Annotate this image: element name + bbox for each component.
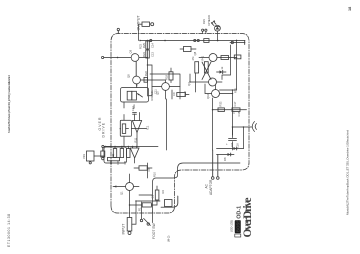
diode D5 — [220, 70, 223, 73]
electrolytic cap — [232, 127, 234, 150]
svg-text:C9: C9 — [172, 92, 176, 96]
svg-text:R29: R29 — [202, 19, 206, 24]
svg-text:Q7: Q7 — [187, 82, 191, 86]
svg-text:Q9: Q9 — [129, 49, 133, 53]
svg-text:INPUT: INPUT — [121, 223, 125, 235]
svg-text:R23: R23 — [139, 44, 143, 49]
right bus — [140, 40, 245, 42]
svg-text:C14: C14 — [151, 43, 155, 48]
Q5 switch — [162, 83, 170, 91]
pot B DRIVE — [120, 120, 131, 136]
svg-text:ET130001 14:38: ET130001 14:38 — [7, 214, 11, 247]
svg-text:R10: R10 — [152, 172, 156, 177]
flip-flop — [209, 78, 217, 86]
pin circle P7 — [117, 28, 119, 30]
svg-text:C12: C12 — [131, 106, 135, 111]
svg-text:R18: R18 — [165, 75, 169, 80]
svg-text:Q1: Q1 — [120, 191, 124, 195]
svg-text:C17: C17 — [233, 101, 237, 106]
pot A pin — [101, 151, 105, 157]
pot A — [104, 147, 127, 163]
diodes — [217, 149, 244, 155]
resistor R16 — [177, 93, 186, 97]
op-amp U1b — [130, 148, 139, 158]
svg-text:VR1: VR1 — [82, 153, 86, 159]
Q1 output — [131, 54, 139, 62]
Q1 input — [126, 183, 134, 191]
wire ff-to-power — [222, 45, 231, 80]
svg-text:Q8: Q8 — [127, 74, 131, 78]
svg-text:D9: D9 — [231, 110, 235, 114]
coupling cap C12 — [133, 112, 137, 114]
junction dots bus — [105, 146, 107, 148]
battery clip — [252, 122, 256, 132]
inner corner wire — [161, 196, 178, 207]
svg-text:MusicML2TheTubeAmpBook OD1_ET: MusicML2TheTubeAmpBook OD1_ET 330_Overdr… — [346, 130, 350, 215]
resistor R42 — [221, 56, 229, 60]
svg-text:BOSS: BOSS — [236, 220, 241, 233]
rails — [166, 99, 168, 150]
notch wire — [153, 163, 241, 212]
resistor R18 — [169, 72, 173, 80]
bus — [104, 146, 158, 148]
svg-text:C6: C6 — [147, 168, 151, 172]
resistor column — [113, 149, 116, 158]
svg-text:(OD-135): (OD-135) — [230, 220, 234, 232]
input resistors — [142, 203, 151, 207]
svg-text:MusicML2TheTubeAmpBook OD1_ET: MusicML2TheTubeAmpBook OD1_ET 330_Overdr… — [7, 75, 11, 133]
svg-text:R2: R2 — [161, 190, 165, 194]
op-amp U1a — [132, 121, 141, 133]
svg-text:R33: R33 — [219, 101, 223, 106]
svg-text:Q5: Q5 — [156, 91, 160, 95]
svg-text:C16: C16 — [237, 111, 241, 116]
Q LED driver — [212, 90, 220, 98]
trimmer box — [87, 151, 95, 161]
svg-text:(M-2): (M-2) — [167, 235, 171, 242]
pot C — [121, 88, 149, 103]
bottom wires — [220, 40, 237, 90]
svg-text:10k: 10k — [109, 160, 113, 165]
wire stub — [171, 90, 173, 99]
box small — [139, 166, 147, 170]
svg-text:C5: C5 — [123, 161, 127, 165]
svg-text:R15: R15 — [183, 91, 187, 96]
svg-text:IC1: IC1 — [146, 125, 150, 130]
svg-text:R1: R1 — [138, 207, 142, 211]
svg-text:DRIVE: DRIVE — [102, 122, 106, 137]
resistor R37 — [184, 47, 192, 52]
svg-text:OverDrive: OverDrive — [242, 198, 254, 238]
svg-text:R41: R41 — [202, 55, 205, 60]
svg-text:D8: D8 — [223, 157, 227, 161]
enclosure outline — [111, 34, 249, 214]
box near corner — [165, 200, 173, 207]
svg-text:FOOT SW: FOOT SW — [152, 222, 156, 239]
resistor R22 — [144, 77, 147, 82]
svg-text:18: 18 — [348, 7, 352, 11]
output resistors — [147, 41, 149, 97]
svg-text:C13: C13 — [151, 52, 155, 57]
pin circles P8 P9 — [202, 29, 204, 31]
Q2 output buffer — [133, 76, 141, 84]
svg-text:R24: R24 — [142, 52, 146, 57]
input wire 2 — [132, 201, 139, 224]
svg-text:D7: D7 — [230, 143, 234, 147]
svg-text:+: + — [225, 143, 229, 145]
svg-text:R6: R6 — [116, 161, 120, 165]
svg-text:ADAPTOR: ADAPTOR — [209, 179, 213, 195]
svg-text:Q8: Q8 — [193, 51, 197, 55]
svg-text:CHECK: CHECK — [207, 14, 211, 26]
svg-text:R21 10k: R21 10k — [150, 90, 154, 101]
svg-text:R25: R25 — [142, 43, 146, 48]
svg-text:Q10: Q10 — [206, 93, 210, 99]
power line — [213, 109, 247, 111]
